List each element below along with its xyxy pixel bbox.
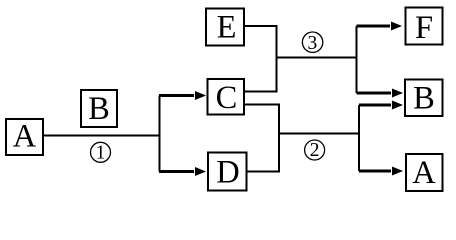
arrow into C — [159, 94, 194, 97]
box C — [208, 79, 245, 115]
svg-text:A: A — [412, 155, 436, 191]
svg-text:3: 3 — [308, 33, 318, 54]
right junction vertical lower — [358, 105, 360, 171]
arrow into F — [357, 25, 391, 28]
box A right — [406, 154, 443, 191]
wire C lower output then down — [245, 105, 280, 172]
box B small — [81, 90, 117, 127]
svg-text:F: F — [415, 10, 433, 46]
box E — [206, 9, 244, 46]
box B right — [405, 80, 443, 117]
circled 1 — [91, 142, 111, 162]
wire E right then down to node 3 line — [245, 26, 277, 92]
arrow into D — [159, 170, 194, 173]
svg-text:1: 1 — [96, 143, 106, 164]
svg-text:A: A — [13, 119, 37, 155]
box A left — [6, 119, 43, 155]
svg-text:D: D — [216, 155, 239, 191]
arrow into B top — [357, 92, 392, 95]
svg-text:B: B — [413, 81, 435, 117]
svg-text:B: B — [88, 91, 110, 127]
box D — [208, 153, 247, 191]
svg-text:C: C — [216, 80, 238, 116]
arrow into B bottom — [359, 104, 391, 107]
wire A to left junction — [44, 135, 160, 137]
arrow into right A — [359, 170, 391, 173]
right junction vertical upper — [356, 26, 358, 93]
wire D output — [248, 171, 281, 173]
left junction vertical — [159, 96, 161, 172]
circled 2 — [305, 140, 325, 160]
wire line 3 horizontal — [277, 57, 357, 59]
wire C upper output — [245, 91, 278, 93]
circled 3 — [302, 32, 322, 52]
wire line 2 horizontal — [279, 133, 359, 135]
svg-text:2: 2 — [310, 140, 320, 161]
box F — [406, 8, 443, 45]
svg-text:E: E — [217, 10, 237, 46]
